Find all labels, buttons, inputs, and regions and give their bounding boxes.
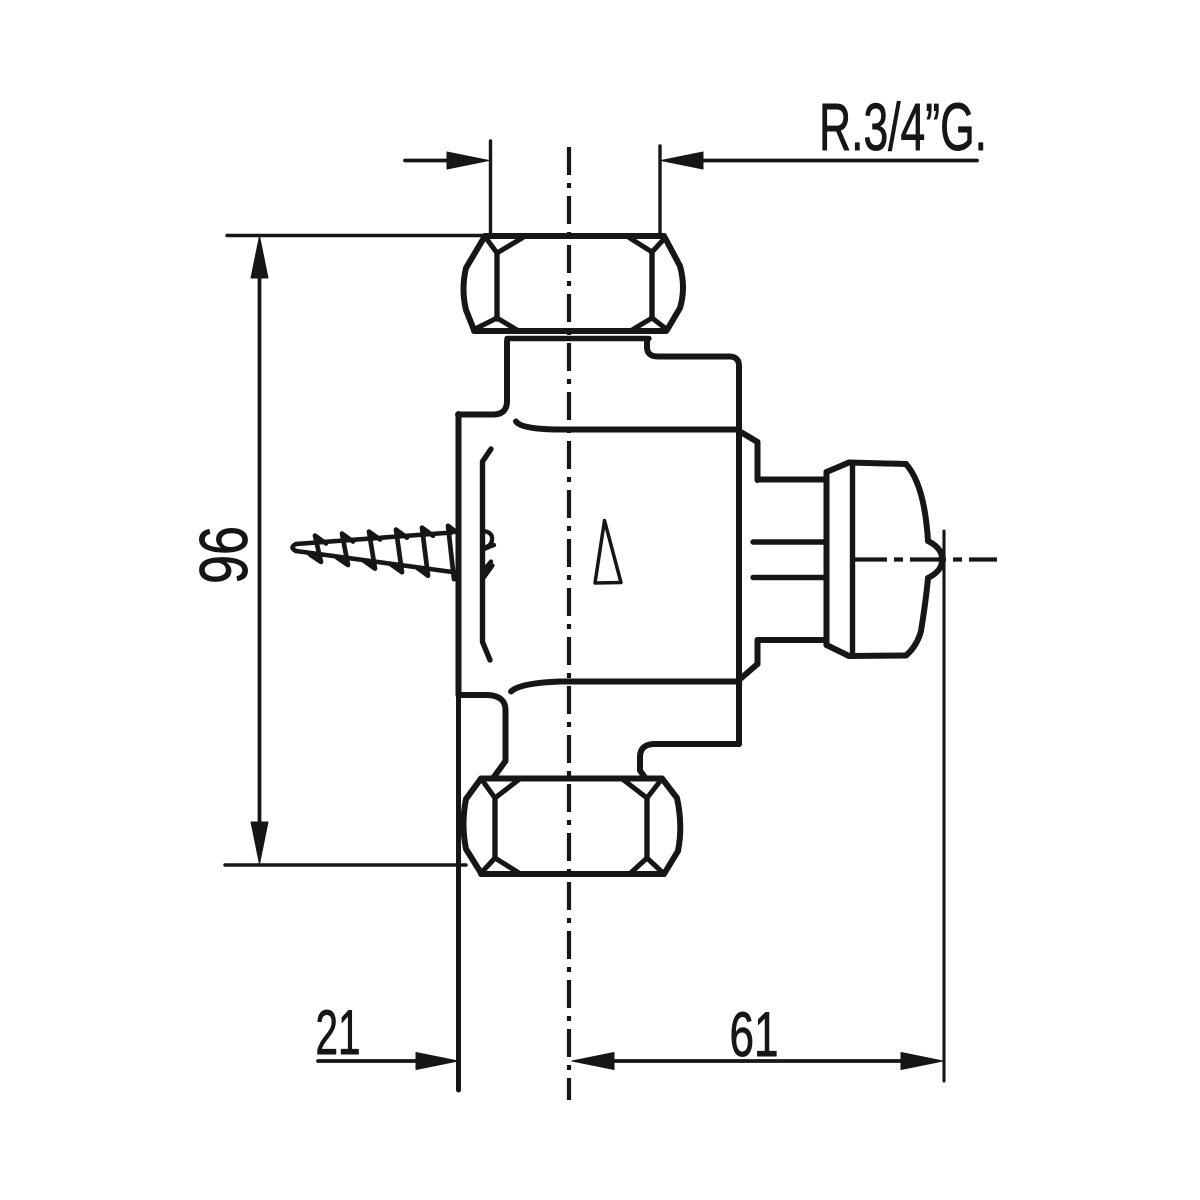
body bottom right step (640, 744, 739, 778)
dimension 21 line (318, 1053, 458, 1070)
top neck right + step (647, 341, 739, 432)
svg-text:R.3/4”G.: R.3/4”G. (819, 90, 987, 165)
dimension 96 line (225, 236, 490, 866)
body right edge (736, 430, 742, 745)
flow direction triangle (595, 521, 621, 584)
dimension 61 line (572, 531, 944, 1081)
top neck left (458, 341, 507, 415)
top hex nut (464, 236, 684, 339)
outlet flare (739, 431, 758, 680)
bottom hex nut (464, 779, 681, 875)
body bottom left step (459, 695, 506, 778)
svg-text:21: 21 (316, 998, 361, 1068)
left body edge + extension line (456, 414, 462, 695)
outlet neck (753, 480, 826, 641)
svg-text:61: 61 (730, 1000, 779, 1070)
centerline vertical axis (567, 147, 571, 1100)
screw (293, 533, 457, 573)
inner lug line (483, 449, 492, 660)
outlet cap (827, 463, 943, 657)
lug thread hook lower (483, 562, 493, 579)
svg-text:96: 96 (186, 526, 262, 584)
screw threads (310, 526, 457, 579)
body top parting line with curl (516, 422, 739, 430)
body bottom parting line with curl (511, 682, 737, 692)
lug thread hook upper (483, 531, 494, 549)
centerline horizontal axis (851, 557, 997, 561)
dimension R.3/4"G. (405, 141, 977, 233)
